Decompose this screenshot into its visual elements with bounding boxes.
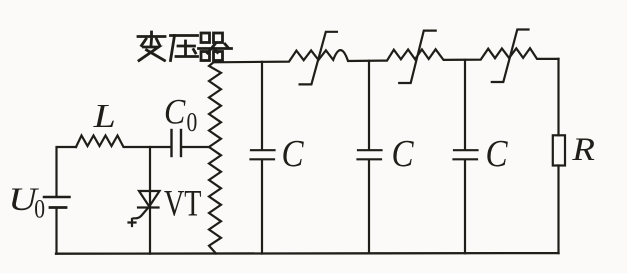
svg-text:R: R	[571, 131, 595, 168]
svg-text:C: C	[486, 132, 509, 175]
svg-text:0: 0	[34, 196, 45, 224]
svg-text:C: C	[282, 132, 305, 175]
svg-text:0: 0	[187, 108, 198, 138]
svg-text:L: L	[93, 97, 116, 134]
svg-text:C: C	[164, 93, 186, 132]
svg-text:VT: VT	[164, 184, 202, 224]
svg-text:C: C	[392, 132, 415, 175]
